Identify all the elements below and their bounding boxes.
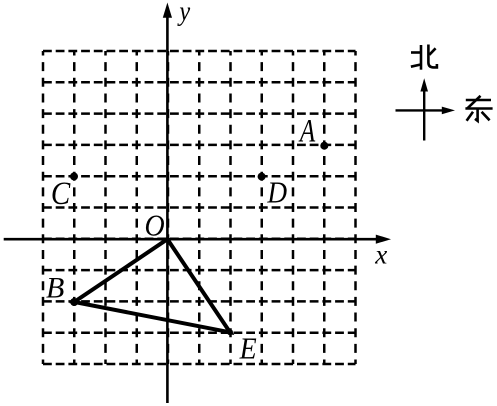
y-axis <box>166 16 169 403</box>
point A <box>320 142 328 150</box>
triangle OBE <box>74 239 230 332</box>
compass cross <box>396 90 444 141</box>
compass east arrowhead <box>442 107 455 115</box>
character 北 (North) <box>411 45 437 70</box>
point C <box>70 172 78 180</box>
character 东 (East) <box>465 96 492 121</box>
svg-text:O: O <box>145 209 165 243</box>
svg-text:x: x <box>374 239 387 269</box>
svg-text:E: E <box>239 332 257 366</box>
svg-text:D: D <box>266 176 287 210</box>
svg-text:A: A <box>298 113 315 149</box>
dashed grid <box>43 51 356 364</box>
x-axis <box>4 238 378 241</box>
svg-text:y: y <box>177 0 191 27</box>
point D <box>258 173 266 181</box>
compass north arrowhead <box>420 78 428 91</box>
y-axis arrowhead <box>163 3 172 18</box>
svg-text:B: B <box>46 271 64 304</box>
vertex blob at E <box>227 329 233 335</box>
point B <box>70 298 78 306</box>
x-axis arrowhead <box>376 235 391 244</box>
svg-text:C: C <box>51 174 72 211</box>
